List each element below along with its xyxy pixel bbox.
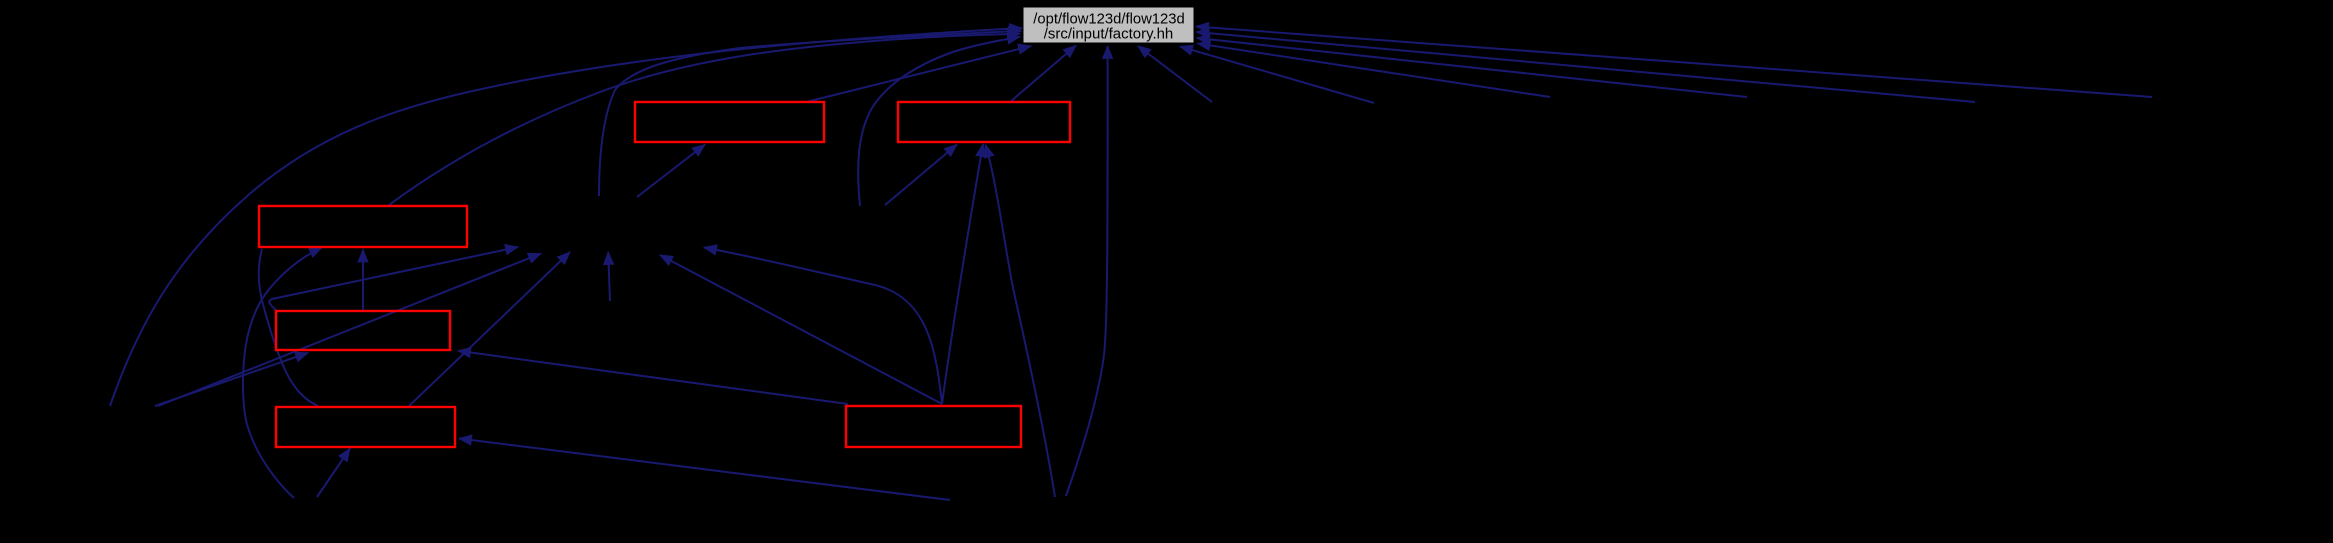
wire bottom node arc to BL bottom (big C arc) (243, 248, 322, 499)
wire h6: bottom-mid red box curving to hub right (704, 248, 942, 405)
node BL (red box row2) (259, 206, 467, 247)
node BM (red box row4 mid) (846, 406, 1021, 447)
node B2 (red box row1 right) (898, 102, 1070, 142)
wire bottom node V2 to factory.hh (vertical) (1066, 46, 1108, 496)
wire bottom node to LL right edge (459, 439, 950, 501)
wire ML top to BL bottom (vertical) (362, 250, 364, 312)
node LL (red box row4 left) (276, 407, 455, 447)
node factory.hh (gray) (1023, 7, 1194, 43)
wire bottom-left node to ML bottom (155, 353, 308, 406)
wire R4 fan: (1747,97) to factory.hh right edge (1197, 38, 1747, 97)
wire h1: mid-left red box to hub (269, 247, 518, 311)
wire R2: invisible node (1374,103) to factory.hh bottom (1180, 47, 1374, 104)
wire R3 fan: (1550,97) to factory.hh right edge (1198, 44, 1551, 98)
wire h5: bottom-mid red box to hub (660, 255, 942, 404)
wire N2a: invisible node to factory.hh (858, 37, 1020, 206)
wire C1: bottom-left node to factory.hh left edge (110, 28, 1022, 406)
wire B1 top to factory.hh bottom-left (806, 46, 1031, 102)
wire BM box to B2 bottom (curve) (942, 144, 983, 404)
node B1 (red box row1 left) (635, 102, 824, 142)
wire H-top curve: hub node to factory.hh (599, 31, 1021, 196)
wire B2 top to factory.hh bottom (1010, 46, 1076, 103)
wire R6 fan: (2152,97) to factory.hh right edge (1196, 27, 2152, 98)
wire h3: lower-left red box top to hub (409, 252, 570, 406)
wire hub to B1 bottom (637, 145, 705, 198)
node ML (red box row3) (276, 311, 450, 350)
wire R1: invisible node (1212,102) to factory.hh bottom (1138, 46, 1212, 102)
wire C2: left red box top to factory.hh left edge (389, 34, 1020, 205)
wire node to B2 bottom (885, 145, 957, 206)
wire R5 fan: (1975,102) to factory.hh right edge (1197, 32, 1976, 102)
wire bottom node to LL bottom (317, 449, 350, 498)
svg-text:/src/input/factory.hh: /src/input/factory.hh (1044, 25, 1174, 42)
wire bottom node V1 to B2 bottom (986, 145, 1056, 497)
wire BL bottom-left to LL top-left (curve, no head) (259, 249, 318, 406)
wire h4: small node to hub (vertical) (608, 252, 610, 301)
wire h2: bottom-left node to hub (158, 254, 541, 407)
wire BM box to ML right edge (458, 351, 848, 404)
